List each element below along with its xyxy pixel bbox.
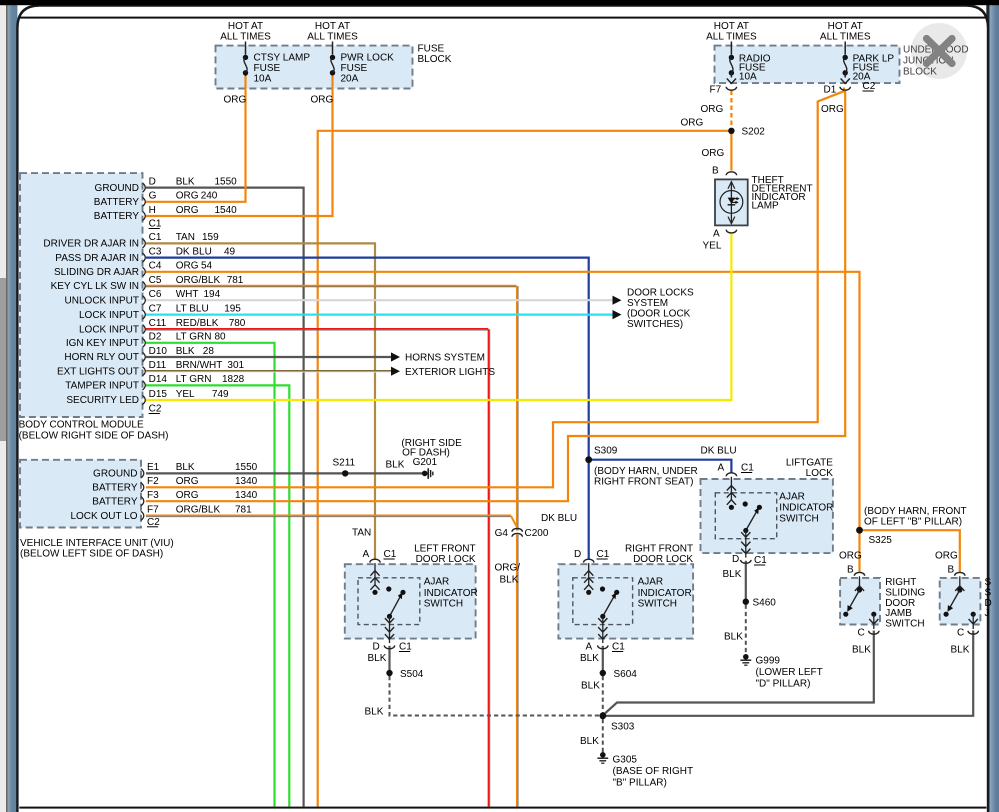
svg-text:B: B [948,564,955,575]
splice S604 [600,670,606,676]
svg-text:JAMB: JAMB [885,608,912,619]
BCM pin arcs [143,183,146,192]
svg-text:VEHICLE INTERFACE UNIT (VIU): VEHICLE INTERFACE UNIT (VIU) [20,538,174,549]
svg-text:RIGHT FRONT SEAT): RIGHT FRONT SEAT) [594,477,693,488]
svg-text:BLK: BLK [500,575,519,586]
svg-text:159: 159 [202,232,219,243]
svg-text:LEFT FRONT: LEFT FRONT [414,544,475,555]
svg-text:D: D [732,554,739,565]
svg-text:ORG: ORG [176,261,199,272]
svg-text:LOCK: LOCK [806,468,834,479]
svg-text:1540: 1540 [215,205,238,216]
svg-text:BATTERY: BATTERY [92,496,138,507]
svg-text:194: 194 [204,289,221,300]
svg-text:TAMPER INPUT: TAMPER INPUT [65,381,139,392]
svg-text:C6: C6 [149,289,162,300]
svg-text:BLK: BLK [724,632,743,643]
svg-text:301: 301 [227,360,244,371]
svg-text:HORNS SYSTEM: HORNS SYSTEM [405,353,485,364]
theft deterrent indicator lamp box [715,179,748,225]
svg-text:ALL TIMES: ALL TIMES [820,32,871,43]
svg-text:(BODY HARN, UNDER: (BODY HARN, UNDER [594,466,698,477]
svg-text:S202: S202 [742,127,766,138]
svg-text:BLK: BLK [386,460,405,471]
svg-text:SWITCH: SWITCH [638,599,677,610]
svg-text:ORG: ORG [176,490,199,501]
svg-text:SLIDING: SLIDING [885,587,925,598]
svg-text:ORG/BLK: ORG/BLK [176,275,221,286]
svg-text:A: A [586,642,593,653]
svg-text:C2: C2 [147,517,160,528]
C200 connector [513,531,523,535]
VIU pin arcs [141,469,144,478]
svg-text:D11: D11 [149,360,167,371]
svg-text:PWR LOCK: PWR LOCK [341,53,395,64]
svg-text:LT GRN: LT GRN [176,332,212,343]
top black title bar [0,0,999,5]
svg-text:BLK: BLK [176,346,195,357]
svg-text:ALL TIMES: ALL TIMES [220,32,271,43]
svg-text:BLK: BLK [723,569,742,580]
svg-text:20A: 20A [341,74,359,85]
wire BLK 1550 from BCM pin D down to page bottom [146,188,304,807]
svg-text:J: J [985,608,990,619]
wire D2 LT GRN 80 from BCM down to page bottom [146,343,275,807]
left scrollbar thumb [0,278,6,441]
svg-text:781: 781 [235,505,252,516]
svg-text:INDICATOR: INDICATOR [779,503,833,514]
svg-text:S211: S211 [333,458,356,469]
vehicle interface unit box [20,460,141,528]
svg-text:(DOOR LOCK: (DOOR LOCK [627,309,691,320]
svg-text:C1: C1 [149,219,162,230]
svg-text:ORG: ORG [176,205,199,216]
svg-text:GROUND: GROUND [95,183,139,194]
horns system arrow [391,352,400,361]
underhood junction block box [715,46,900,84]
svg-text:BLOCK: BLOCK [903,67,937,78]
svg-text:749: 749 [212,389,229,400]
svg-text:KEY CYL LK SW IN: KEY CYL LK SW IN [51,281,139,292]
svg-text:LT GRN: LT GRN [176,374,212,385]
svg-text:C1: C1 [384,549,397,560]
theft lamp LED symbol [728,198,736,204]
left ajar indicator switch inner box [358,578,420,625]
svg-text:10A: 10A [739,72,757,83]
svg-text:S604: S604 [614,669,638,680]
svg-text:D14: D14 [149,374,168,385]
svg-text:1550: 1550 [235,462,258,473]
body control module box [20,173,143,417]
svg-text:LAMP: LAMP [752,201,780,212]
svg-text:ORG: ORG [224,95,247,106]
svg-text:C1: C1 [612,642,625,653]
wire DK BLU branch from S309 to liftgate lock pin A [589,460,732,473]
svg-text:BATTERY: BATTERY [94,211,140,222]
svg-text:BLK: BLK [365,707,384,718]
svg-text:F2: F2 [147,476,159,487]
splice S309 [585,456,592,463]
wire BLK from jamb switch 1 to S303 [605,631,874,714]
svg-text:BATTERY: BATTERY [94,197,140,208]
svg-text:LOCK INPUT: LOCK INPUT [79,310,139,321]
svg-text:(LOWER LEFT: (LOWER LEFT [756,667,823,678]
svg-text:INDICATOR: INDICATOR [638,588,692,599]
svg-text:SYSTEM: SYSTEM [627,298,668,309]
svg-text:ORG: ORG [702,148,725,159]
theft lamp pin A cup [726,230,736,233]
svg-text:28: 28 [203,346,215,357]
svg-text:195: 195 [224,303,241,314]
diagram frame top line [19,17,986,19]
svg-text:54: 54 [201,261,213,272]
svg-text:C: C [957,627,964,638]
svg-text:C1: C1 [149,232,162,243]
svg-text:ALL TIMES: ALL TIMES [706,32,757,43]
wire ORG from S202 to theft lamp pin B [730,131,732,171]
svg-text:LT BLU: LT BLU [176,303,209,314]
svg-text:H: H [149,205,156,216]
svg-text:S: S [985,587,992,598]
svg-text:ORG: ORG [176,476,199,487]
svg-text:C2: C2 [863,81,876,92]
svg-text:S504: S504 [400,669,424,680]
svg-text:INDICATOR: INDICATOR [424,588,478,599]
svg-text:781: 781 [227,275,244,286]
svg-text:RIGHT FRONT: RIGHT FRONT [625,544,693,555]
fuse block (dash panel) box [216,46,413,89]
second sliding door jamb switch symbol [955,572,965,575]
svg-text:ORG: ORG [821,104,844,115]
door locks system arrow [613,296,622,305]
svg-text:D: D [149,176,156,187]
svg-text:1828: 1828 [222,374,245,385]
svg-text:LOCK INPUT: LOCK INPUT [79,324,139,335]
left blue-grey bar [8,0,18,812]
right blue-grey bar [990,0,999,812]
svg-text:D: D [373,642,380,653]
svg-text:ORG: ORG [681,118,704,129]
svg-text:DOOR LOCK: DOOR LOCK [416,554,476,565]
fuse RADIO 10A [730,42,732,55]
right sliding door jamb switch symbol [854,572,864,575]
pin D1 connector cup [840,87,850,90]
svg-text:C: C [858,627,865,638]
liftgate ajar indicator switch symbol [726,473,736,476]
wire BLK from left ajar switch to S504 [388,646,390,673]
svg-text:G4: G4 [495,528,509,539]
svg-text:DOOR LOCK: DOOR LOCK [633,554,693,565]
theft lamp bulb circle [720,191,743,214]
svg-text:D2: D2 [149,332,162,343]
svg-text:C1: C1 [754,555,767,566]
right front door lock box [558,564,693,638]
svg-text:RED/BLK: RED/BLK [176,318,219,329]
wire D15 YEL 749 from BCM to theft deterrent lamp pin A [146,234,731,400]
wire ORG feed to S202 and down off page [318,131,732,807]
right card edge line [986,0,989,812]
wire E1 BLK 1550 from VIU to G201 ground [146,472,422,474]
svg-text:"B" PILLAR): "B" PILLAR) [613,778,667,789]
wire D10 BLK 28 from BCM to horns system arrow [146,356,391,358]
wire BLK from liftgate ajar switch to S460 [745,561,747,602]
svg-text:HOT AT: HOT AT [828,21,863,32]
svg-text:BODY CONTROL MODULE: BODY CONTROL MODULE [19,420,144,431]
svg-text:HOT AT: HOT AT [714,21,749,32]
svg-text:C11: C11 [149,318,167,329]
left ajar indicator switch symbol [370,559,380,562]
splice S460 [743,599,749,605]
svg-text:BLK: BLK [176,462,195,473]
svg-text:S460: S460 [753,598,777,609]
wire F2 ORG 1340 from VIU to PARK LP fuse via left branch [146,88,844,488]
svg-text:ORG: ORG [311,95,334,106]
svg-text:TAN: TAN [352,528,371,539]
svg-text:240: 240 [201,191,218,202]
svg-text:D10: D10 [149,346,168,357]
wire ORG 1540 from PWR LOCK fuse to BCM pin H [146,74,333,216]
svg-text:HOT AT: HOT AT [228,21,263,32]
svg-text:BLK: BLK [852,644,871,655]
svg-text:UNLOCK INPUT: UNLOCK INPUT [65,295,139,306]
svg-text:ORG: ORG [701,104,724,115]
svg-text:LOCK OUT LO: LOCK OUT LO [70,511,137,522]
ground G999 [743,654,749,660]
svg-text:EXT LIGHTS OUT: EXT LIGHTS OUT [57,366,139,377]
second sliding door jamb switch box [940,578,981,625]
splice S504 [386,670,392,676]
svg-text:DRIVER DR AJAR IN: DRIVER DR AJAR IN [43,239,139,250]
svg-text:1340: 1340 [235,490,258,501]
svg-text:(BODY HARN, FRONT: (BODY HARN, FRONT [864,506,967,517]
svg-text:D1: D1 [824,85,837,96]
svg-text:C5: C5 [149,275,162,286]
svg-text:(BASE OF RIGHT: (BASE OF RIGHT [613,766,694,777]
svg-text:BLK: BLK [580,653,599,664]
svg-text:ALL TIMES: ALL TIMES [307,32,358,43]
svg-text:(BELOW LEFT SIDE OF DASH): (BELOW LEFT SIDE OF DASH) [20,549,163,560]
svg-text:LIFTGATE: LIFTGATE [786,458,833,469]
svg-text:OF LEFT "B" PILLAR): OF LEFT "B" PILLAR) [864,517,962,528]
wire C7 LT BLU 195 from BCM to door lock switches arrow [146,314,613,316]
svg-text:A: A [718,463,725,474]
fuse PWR LOCK 20A [332,42,334,55]
svg-text:FUSE: FUSE [418,44,445,55]
svg-text:SECURITY LED: SECURITY LED [66,395,139,406]
wire F3 ORG 1340 from VIU to PARK LP fuse pin D1 [146,90,845,502]
svg-text:D: D [985,598,992,609]
dashed ORG wire from RADIO fuse F7 to S202 [730,91,732,128]
pin F7 connector cup [726,87,736,90]
right ajar indicator switch inner box [573,578,633,625]
svg-text:ORG/: ORG/ [495,563,521,574]
svg-text:G201: G201 [413,457,438,468]
svg-text:G999: G999 [756,656,781,667]
svg-text:1340: 1340 [235,476,258,487]
svg-text:80: 80 [215,332,227,343]
svg-text:BLK: BLK [580,736,599,747]
liftgate ajar indicator switch inner box [715,493,776,539]
wire D14 LT GRN 1828 from BCM down to page bottom [146,385,289,806]
dashed BLK wire from S460 to G999 ground [745,605,747,654]
theft lamp internal arrow [730,181,732,223]
svg-text:FUSE: FUSE [254,63,281,74]
svg-text:10A: 10A [254,74,272,85]
svg-text:BLK: BLK [951,644,970,655]
svg-text:780: 780 [229,318,246,329]
svg-text:FUSE: FUSE [341,63,368,74]
exterior lights arrow [391,367,400,376]
svg-text:RIGHT: RIGHT [885,577,916,588]
splice S303 [599,712,606,719]
svg-text:YEL: YEL [176,389,195,400]
svg-text:S325: S325 [869,535,893,546]
svg-text:IGN KEY INPUT: IGN KEY INPUT [66,338,139,349]
svg-text:C4: C4 [149,261,162,272]
svg-text:F7: F7 [147,505,159,516]
svg-text:BLK: BLK [581,681,600,692]
splice S202 [728,128,734,134]
svg-text:BATTERY: BATTERY [92,483,138,494]
svg-text:DOOR: DOOR [885,598,915,609]
svg-text:G: G [149,191,157,202]
wire C6 WHT 194 from BCM to door locks system arrow [146,299,613,301]
svg-text:C3: C3 [149,246,162,257]
svg-text:SWITCH: SWITCH [424,599,463,610]
svg-text:1550: 1550 [215,176,238,187]
left front door lock box [345,564,476,638]
svg-text:A: A [713,229,720,240]
svg-text:ORG: ORG [935,551,958,562]
svg-text:ORG: ORG [839,551,862,562]
svg-text:C1: C1 [741,463,754,474]
svg-text:G305: G305 [613,755,638,766]
splice S325 [856,527,863,534]
svg-text:(BELOW RIGHT SIDE OF DASH): (BELOW RIGHT SIDE OF DASH) [19,431,169,442]
svg-text:DK BLU: DK BLU [541,513,577,524]
svg-text:DK BLU: DK BLU [701,445,737,456]
fuse PARK LP 20A [844,42,846,55]
ground G201 [422,471,428,477]
svg-text:DK BLU: DK BLU [176,246,212,257]
svg-text:B: B [712,166,719,177]
svg-text:BLK: BLK [176,176,195,187]
svg-text:B: B [847,564,854,575]
diagram frame bottom line [19,807,986,809]
wire ORG 240 from CTSY LAMP fuse to BCM pin G [146,74,246,202]
wire ORG branch from S325 to second jamb switch [860,530,960,572]
fuse CTSY LAMP 10A [245,42,247,55]
svg-text:D: D [574,549,581,560]
left dark separator line [6,0,8,812]
svg-text:AJAR: AJAR [638,577,664,588]
svg-text:ORG/BLK: ORG/BLK [176,505,221,516]
dashed BLK wire from S504 to S303 [390,676,600,716]
svg-text:CTSY LAMP: CTSY LAMP [254,53,311,64]
close button circle [911,23,967,79]
wire C3 DK BLU 49 from BCM to S309 down to right front door lock [146,258,589,559]
wire C1 TAN 159 from BCM to left front door lock [146,243,375,559]
svg-text:F3: F3 [147,490,159,501]
wire D11 BRN/WHT 301 from BCM to exterior lights arrow [146,370,391,372]
svg-text:S309: S309 [594,446,618,457]
wire F7 ORG/BLK 781 from VIU merging into C200 drop [146,514,511,516]
svg-text:A: A [363,549,370,560]
svg-text:49: 49 [224,246,236,257]
liftgate lock box [701,479,833,553]
svg-text:HORN RLY OUT: HORN RLY OUT [64,352,139,363]
svg-text:SWITCHES): SWITCHES) [627,319,683,330]
svg-text:C2: C2 [149,404,162,415]
wire BLK from jamb switch 2 to S303 [606,631,973,716]
svg-text:SWITCH: SWITCH [885,619,924,630]
theft lamp pin B cup [726,172,736,175]
svg-text:"D" PILLAR): "D" PILLAR) [756,679,811,690]
wire C4 ORG 54 from BCM to S325 [146,272,860,572]
left scrollbar track [0,0,6,812]
svg-text:BLOCK: BLOCK [418,54,452,65]
svg-text:GROUND: GROUND [93,469,137,480]
svg-text:HOT AT: HOT AT [315,21,350,32]
dashed BLK wire from S303 to G305 ground [602,719,604,752]
svg-text:S303: S303 [611,722,635,733]
svg-text:SLIDING DR AJAR: SLIDING DR AJAR [54,267,139,278]
svg-text:AJAR: AJAR [779,492,805,503]
svg-text:BRN/WHT: BRN/WHT [176,360,223,371]
svg-text:BLK: BLK [368,653,387,664]
svg-text:TAN: TAN [176,232,195,243]
svg-text:D15: D15 [149,389,168,400]
wire BLK from right ajar switch to S604 [602,646,604,673]
svg-text:C200: C200 [525,528,549,539]
svg-text:PASS DR AJAR IN: PASS DR AJAR IN [55,253,139,264]
svg-text:C7: C7 [149,303,162,314]
ground G305 [600,752,606,758]
dashed BLK wire from S604 to S303 [602,676,604,713]
splice S211 [342,470,348,476]
close button X [927,39,953,64]
svg-text:AJAR: AJAR [424,577,450,588]
right ajar indicator switch symbol [584,559,594,562]
right sliding door jamb switch box [840,578,880,625]
svg-text:EXTERIOR LIGHTS: EXTERIOR LIGHTS [405,367,495,378]
svg-text:C1: C1 [597,549,610,560]
wire C5 ORG/BLK 781 from BCM down through C200 [146,285,517,287]
svg-text:SWITCH: SWITCH [779,514,818,525]
door lock switches arrow [613,310,622,319]
svg-text:S: S [985,577,992,588]
wire C11 RED/BLK 780 from BCM down to page bottom [146,328,488,330]
svg-text:ORG: ORG [176,191,199,202]
svg-text:F7: F7 [710,85,722,96]
svg-text:WHT: WHT [176,289,199,300]
svg-text:YEL: YEL [703,241,722,252]
svg-text:C1: C1 [399,642,412,653]
svg-text:E1: E1 [147,462,160,473]
